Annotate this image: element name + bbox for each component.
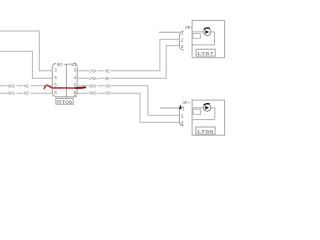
- svg-text:LPSA: LPSA: [90, 68, 97, 73]
- svg-text:OR: OR: [183, 100, 188, 105]
- svg-text:2: 2: [181, 114, 184, 119]
- wire MAS-NO from pin 6 right to LT58 pin 3: [77, 93, 179, 122]
- connector left pin numbers 3 4 5 6: [54, 68, 57, 95]
- svg-text:BN: BN: [106, 76, 110, 81]
- LT57 outer box: [192, 20, 225, 57]
- LT58 lamp arrow: [205, 106, 209, 110]
- wire LPSA-WE from pin 3 right to LT57 pin 2: [77, 39, 179, 71]
- svg-text:1: 1: [182, 106, 185, 111]
- svg-text:4: 4: [54, 75, 57, 80]
- LT58 label box: [196, 127, 215, 134]
- svg-text:5: 5: [74, 83, 77, 88]
- svg-text:3: 3: [54, 68, 57, 73]
- connector RT06 left shell: [52, 63, 56, 96]
- connector label box RT06: [56, 98, 73, 105]
- svg-text:MAS: MAS: [8, 91, 15, 96]
- LT58 internal wire: [192, 108, 215, 120]
- svg-text:MAS: MAS: [90, 83, 97, 88]
- LT57 pin bracket: [179, 31, 183, 50]
- wire left MAS-NO to connector pin 5: [0, 85, 52, 87]
- svg-text:LT57: LT57: [198, 51, 214, 57]
- wire stub to LT57 pin 1: [159, 31, 180, 33]
- LT57 lamp arrow: [205, 30, 209, 34]
- svg-text:3: 3: [181, 121, 184, 126]
- svg-text:5: 5: [54, 83, 57, 88]
- connector right pin numbers 3 4 5 6: [74, 68, 77, 95]
- connector RT06: [52, 63, 77, 99]
- LT57 lamp circle icon: [204, 28, 211, 35]
- connector RT06 right shell: [74, 63, 78, 96]
- svg-text:RT06: RT06: [57, 100, 73, 106]
- LT58 lamp circle icon: [204, 104, 211, 111]
- svg-text:LPSA: LPSA: [90, 76, 97, 81]
- svg-text:NO: NO: [106, 91, 111, 96]
- lamp unit LT57: [179, 20, 224, 57]
- LT58 pin bracket: [179, 107, 183, 126]
- wire MAS-NO from pin 5 right to LT58 pin 2: [77, 86, 179, 116]
- svg-text:1: 1: [181, 31, 184, 36]
- svg-text:NO: NO: [106, 83, 111, 88]
- LT57 internal sub-box: [193, 34, 201, 39]
- svg-text:NO: NO: [24, 91, 29, 96]
- svg-text:LT58: LT58: [197, 129, 213, 135]
- LT58 pin 1 direction arrow: [179, 105, 182, 109]
- connector centre leader line down to label: [65, 64, 67, 98]
- svg-text:6: 6: [74, 90, 77, 95]
- LT58 internal sub-box: [193, 109, 200, 114]
- svg-text:NO: NO: [24, 83, 29, 88]
- svg-text:3: 3: [74, 68, 77, 73]
- svg-text:MAS: MAS: [90, 91, 97, 96]
- LT57 label box: [196, 49, 215, 56]
- wire LPSA-BN from pin 4 right to LT57 pin 3: [77, 46, 179, 79]
- connector bottom bridge: [55, 96, 77, 98]
- LT57 internal wire: [192, 32, 214, 45]
- wire left MAS-NO to connector pin 6: [0, 92, 52, 94]
- svg-text:4: 4: [74, 75, 77, 80]
- connector NO-NO bridge: [63, 63, 69, 65]
- svg-text:NO: NO: [70, 62, 76, 67]
- svg-text:NO: NO: [57, 62, 63, 67]
- red highlighter stroke: [44, 85, 85, 88]
- lamp unit LT58: [179, 100, 225, 135]
- LT58 outer box: [192, 100, 225, 135]
- svg-text:2: 2: [181, 38, 184, 43]
- LT57 lamp top arc: [204, 28, 210, 30]
- svg-text:6: 6: [54, 90, 57, 95]
- wire inner L from left edge to connector pin 4: [0, 51, 52, 78]
- svg-text:MAS: MAS: [8, 83, 15, 88]
- wire stub to LT58 pin 1: [160, 107, 179, 109]
- LT58 lamp top arc: [204, 103, 210, 105]
- svg-text:OR: OR: [185, 25, 190, 30]
- svg-text:3: 3: [181, 44, 184, 49]
- wire outer L from left edge to connector pin 3: [0, 31, 52, 71]
- svg-text:WE: WE: [106, 68, 110, 73]
